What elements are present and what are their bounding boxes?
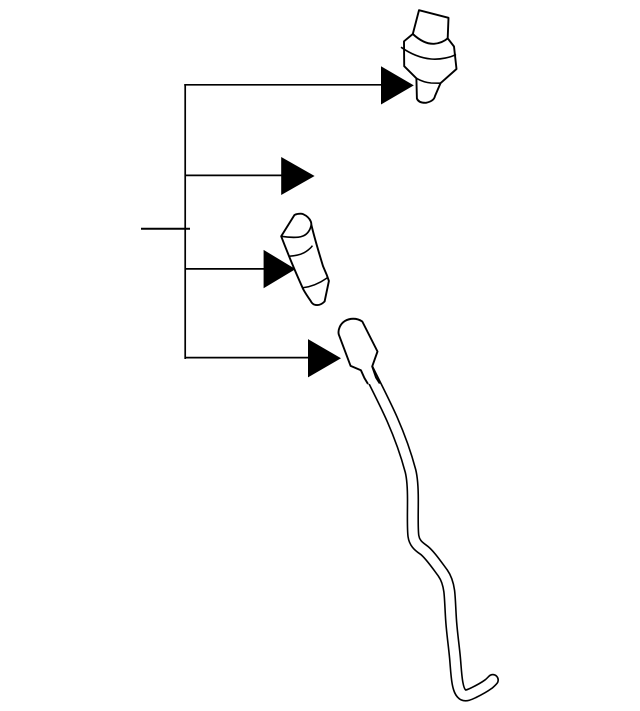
plug lower section curve [302,278,328,288]
part: plug / grommet (middle) silhouette [281,214,329,305]
rod knob (top handle) fill [339,319,380,384]
part: rod (bottom) shaft outer edge [367,367,493,696]
plug upper section curve [289,246,312,257]
branch line 1 (top) [184,84,382,86]
rod knob outline [339,319,380,384]
arrowhead 1 [381,66,414,104]
arrowhead 4 [308,339,341,377]
sensor tip shoulder curve [416,78,440,83]
left short callout line [141,228,190,230]
plug top face lower ellipse edge [281,225,311,238]
part: sensor (top right) body silhouette [404,10,457,103]
branch line 4 (bottom) [185,357,309,359]
sensor cap bottom curve [413,34,448,44]
sensor middle section curve [401,47,456,59]
arrowhead 3 [264,250,296,288]
branch line 2 [185,174,283,176]
rod inner white core [367,367,493,696]
vertical leader line [184,85,186,359]
branch line 3 [185,268,266,270]
arrowhead 2 [281,157,314,195]
